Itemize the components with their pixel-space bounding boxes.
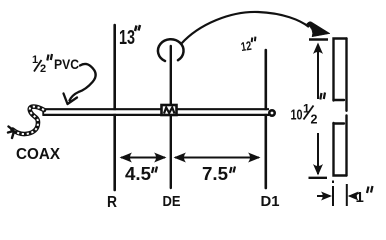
svg-text:12: 12 [240,39,252,54]
svg-text:2: 2 [311,113,318,127]
coax cable squiggle at left boom end [8,107,44,138]
connector block on boom at DE [162,105,177,115]
boom right end cap [269,110,274,115]
svg-text:10: 10 [291,107,303,124]
detail element: lower tube half [334,123,347,176]
svg-text:13: 13 [119,27,135,49]
dimension 1 inch (element width) [317,181,356,207]
dimension arrow 7.5 inch (between DE and D1) [174,153,261,163]
detail element: upper tube half [334,39,347,101]
svg-text:1: 1 [32,54,38,66]
svg-text:1: 1 [356,189,364,206]
label 1/2" PVC [32,54,79,75]
svg-text:D1: D1 [261,193,280,210]
reflector element R (vertical line) [113,25,116,190]
detail element: right edge line [345,39,347,176]
svg-text:COAX: COAX [16,146,60,163]
svg-text:R: R [107,194,117,211]
big curved arrow from feed loop to detail view [181,12,309,44]
feed-point loop at top of DE [158,39,184,61]
svg-text:4.5: 4.5 [125,164,151,184]
boom (1/2 inch PVC horizontal tube) [43,108,270,116]
dimension 10.5 inch vertical arrow [309,40,328,175]
driven element DE (vertical line) [170,46,172,188]
director element D1 (vertical line) [264,50,267,188]
label 1" [356,186,373,206]
svg-text:DE: DE [163,193,181,210]
curvy arrow from PVC label to boom [70,64,96,101]
label 4.5" [125,164,157,184]
svg-text:2: 2 [40,63,46,75]
label 13" [119,25,140,49]
label 7.5" [202,164,235,184]
svg-text:7.5: 7.5 [202,164,228,184]
dimension arrow 4.5 inch (between R and DE) [120,153,167,163]
label 10 1/2" [291,93,326,127]
label 12" [240,37,258,55]
svg-text:PVC: PVC [54,56,79,72]
